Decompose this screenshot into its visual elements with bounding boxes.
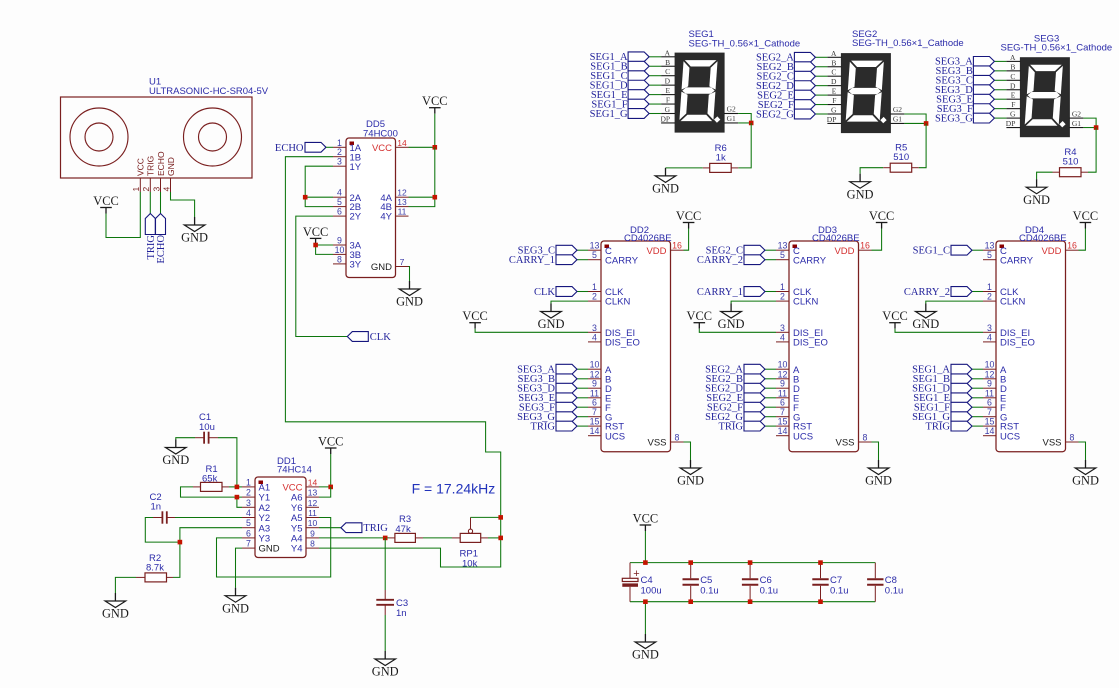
svg-text:GND: GND: [372, 665, 399, 679]
junction: [498, 536, 503, 541]
port SEG1_E: [591, 90, 649, 101]
port CARRY_1 at DD3: [697, 287, 765, 298]
DD3 pin 6 F: [776, 398, 799, 414]
wire DD4 VSS to ground: [1079, 442, 1086, 460]
DD3 pin 10 A: [776, 360, 800, 376]
svg-text:TRIG: TRIG: [363, 523, 388, 534]
wire: [649, 65, 661, 67]
wire U1 pin 2 to TRIG port: [149, 192, 151, 214]
svg-text:SEG-TH_0.56×1_Cathode: SEG-TH_0.56×1_Cathode: [852, 38, 964, 49]
svg-text:1: 1: [246, 477, 251, 487]
wire: [994, 108, 1006, 110]
port SEG3_G: [935, 113, 994, 124]
label RP1 10k: [460, 549, 478, 570]
DD3 pin 9 D: [776, 379, 800, 395]
svg-text:F: F: [832, 96, 836, 105]
wire C2 right to DD1 pin 4: [175, 517, 242, 519]
DD2 pin 12 B: [588, 369, 611, 385]
svg-text:8.7k: 8.7k: [146, 563, 164, 574]
DD2 pin 9 D: [588, 379, 612, 395]
ground at DD1: [222, 588, 249, 616]
DD4 pin 7 G: [983, 407, 1007, 423]
SEG3 pin C: [1006, 72, 1020, 81]
DD3 pin 1 CLK: [776, 282, 812, 298]
svg-text:DP: DP: [1006, 119, 1016, 128]
label C8 0.1u: [885, 575, 904, 596]
wire C3 to ground: [384, 615, 386, 651]
svg-text:10: 10: [778, 360, 788, 370]
DD1 pin 2 Y1: [242, 488, 270, 504]
wire VCC to DD3 VDD: [872, 229, 882, 251]
capacitor C2: [153, 511, 175, 523]
wire: [972, 291, 983, 293]
svg-text:VCC: VCC: [676, 209, 701, 223]
port TRIG at DD4: [926, 421, 973, 432]
label C6 0.1u: [760, 575, 779, 596]
wire: [577, 249, 588, 251]
junction: [643, 560, 648, 565]
svg-text:A: A: [665, 48, 671, 57]
svg-text:7: 7: [246, 539, 251, 549]
wire: [972, 249, 983, 251]
R3 leads: [389, 537, 423, 539]
svg-text:E: E: [666, 86, 671, 95]
svg-text:9: 9: [987, 379, 992, 389]
wire: [815, 56, 827, 58]
wire VCC to DD5 pin 9: [316, 243, 333, 246]
ground at C1: [162, 440, 189, 468]
DD5 pin 2 1B: [333, 147, 361, 163]
DD3 pin 7 G: [776, 407, 800, 423]
label DD4 CD4026BE: [1019, 225, 1067, 244]
wire: [815, 66, 827, 68]
wire DD5 1Y to 2A 2B: [305, 166, 333, 206]
svg-text:GND: GND: [102, 607, 129, 621]
svg-text:G: G: [831, 106, 837, 115]
DD2 pin 15 RST: [588, 417, 624, 433]
svg-text:DIS_EO: DIS_EO: [1000, 338, 1035, 349]
U1 pin 2 TRIG: [141, 156, 156, 192]
svg-text:15: 15: [985, 417, 995, 427]
label C3 1n: [396, 598, 408, 619]
wire R3 junction down to C3: [384, 538, 386, 590]
svg-text:65k: 65k: [202, 474, 218, 485]
port SEG1_D: [590, 80, 649, 91]
svg-text:VCC: VCC: [303, 225, 328, 239]
ground at DD4 CLKN: [912, 304, 939, 332]
U1 pin 3 ECHO: [151, 151, 166, 192]
svg-text:CARRY: CARRY: [1000, 255, 1034, 266]
svg-text:F: F: [666, 96, 670, 105]
svg-text:11: 11: [398, 207, 407, 217]
wire DD5 pin 7 to ground: [409, 267, 410, 282]
wire GND rail bottom: [630, 601, 875, 603]
svg-text:GND: GND: [847, 187, 874, 201]
resistor R3: [395, 533, 416, 542]
DD5 pin 12 4A: [380, 188, 408, 204]
wire: [577, 387, 588, 389]
svg-text:VDD: VDD: [646, 246, 666, 257]
SEG2 pin B: [827, 58, 841, 67]
wire VCC to DD2 VDD: [684, 229, 689, 251]
DD1 pin 12 Y6: [291, 498, 319, 514]
DD2 pin 14 UCS: [588, 426, 625, 442]
wire bottom rail to ground: [644, 602, 646, 634]
DD1 pin 11 A5: [291, 508, 319, 524]
svg-text:15: 15: [590, 417, 600, 427]
svg-text:5: 5: [246, 518, 251, 528]
label R3 47k: [395, 514, 411, 535]
svg-text:E: E: [832, 87, 837, 96]
svg-text:10k: 10k: [462, 558, 478, 569]
wire: [972, 368, 983, 370]
junction: [498, 515, 503, 520]
svg-text:VDD: VDD: [834, 246, 854, 257]
SEG2 pin E: [827, 87, 841, 96]
svg-text:E: E: [1011, 91, 1016, 100]
wire DD3 VSS to ground: [872, 442, 879, 460]
svg-text:1n: 1n: [396, 608, 407, 619]
svg-text:8: 8: [675, 433, 680, 443]
svg-text:10u: 10u: [199, 422, 215, 433]
capacitor C4: [622, 563, 639, 602]
DD4 pin 13 C: [983, 241, 1007, 257]
DD5 pin 11 4Y: [380, 207, 408, 223]
DD5 pin 10 3B: [333, 245, 361, 261]
resistor R5: [883, 163, 919, 172]
wire VCC to DD1 pin 14: [319, 454, 331, 487]
wire: [972, 378, 983, 380]
DD1 pin 8 Y4: [291, 539, 319, 555]
resistor R2: [145, 573, 167, 582]
wire DD1 pin 11 to pin 6: [217, 518, 331, 578]
svg-text:SEG2_G: SEG2_G: [756, 109, 794, 120]
svg-text:2: 2: [141, 187, 151, 192]
SEG3 pin E: [1006, 91, 1020, 100]
svg-text:GND: GND: [538, 317, 565, 331]
port CARRY_2 at DD4: [904, 287, 972, 298]
wire: [815, 104, 827, 106]
port SEG2_B at DD3: [706, 374, 765, 385]
port SEG1_C: [590, 71, 649, 82]
wire C1 right to DD1 pin 1: [218, 438, 237, 487]
wire R4 to ground: [1037, 172, 1053, 179]
wire VCC to DD5 pins 12 13: [409, 147, 435, 206]
wire: [815, 85, 827, 87]
svg-text:GND: GND: [259, 544, 280, 555]
DD3 pin 14 UCS: [776, 426, 813, 442]
SEG3 pin B: [1006, 62, 1020, 71]
DD4 pin 11 E: [983, 388, 1006, 404]
junction: [818, 560, 823, 565]
svg-text:CARRY_2: CARRY_2: [904, 287, 950, 298]
junction: [303, 195, 308, 200]
svg-text:GND: GND: [677, 474, 704, 488]
wire: [649, 84, 661, 86]
DD5 pin 14 VCC: [372, 138, 409, 154]
wire DD3 CLKN to ground: [731, 301, 776, 303]
svg-text:CD4026BE: CD4026BE: [812, 233, 860, 244]
svg-text:2: 2: [592, 292, 597, 302]
power VCC at DD2 VDD: [676, 209, 701, 229]
svg-text:UCS: UCS: [605, 431, 625, 442]
port SEG3_C at DD2: [518, 245, 577, 256]
resistor R4: [1053, 168, 1089, 177]
wire DD5 1B to oscillator net: [285, 157, 500, 567]
port SEG3_B at DD2: [518, 374, 577, 385]
ground at cap bank: [632, 634, 659, 662]
wire VCC to DD2 DIS_EI: [475, 329, 588, 333]
svg-text:0.1u: 0.1u: [760, 585, 779, 596]
svg-text:TRIG: TRIG: [146, 156, 156, 176]
resistor R1: [201, 482, 223, 491]
capacitor C1: [195, 432, 218, 444]
wire R3 to RP1: [423, 537, 452, 539]
port SEG1_G: [590, 109, 649, 120]
DD5 pin 13 4B: [380, 197, 408, 213]
label R2 8.7k: [146, 553, 164, 574]
port CLK at DD2: [534, 287, 577, 298]
svg-text:GND: GND: [632, 648, 659, 662]
port SEG1_A at DD4: [912, 364, 972, 375]
wire junction to R6: [738, 123, 751, 168]
svg-text:9: 9: [310, 528, 315, 538]
display SEG1 title: [689, 29, 801, 50]
wire DD2 VSS to ground: [684, 442, 691, 460]
DD4 pin 12 B: [983, 369, 1006, 385]
R2 leads: [136, 576, 173, 578]
display SEG1 body: [675, 53, 724, 132]
DD3 pin 15 RST: [776, 417, 812, 433]
svg-text:VCC: VCC: [372, 143, 392, 154]
SEG3 pin G1: [1069, 119, 1083, 128]
svg-text:CARRY_2: CARRY_2: [697, 255, 743, 266]
port SEG1_A: [590, 52, 649, 63]
port SEG3_G at DD2: [517, 412, 577, 423]
junction: [924, 121, 929, 126]
DD4 pin 14 UCS: [983, 426, 1020, 442]
port SEG2_E: [757, 90, 815, 101]
port CLK at DD5: [347, 332, 391, 343]
capacitor C5: [683, 563, 699, 602]
wire: [815, 113, 827, 115]
svg-text:GND: GND: [396, 295, 423, 309]
svg-text:4: 4: [161, 187, 171, 192]
wire: [994, 70, 1006, 72]
wire G2 to G1 net: [1083, 118, 1096, 127]
svg-text:5: 5: [780, 250, 785, 260]
DD3 pin 2 CLKN: [776, 292, 818, 308]
port SEG2_C: [757, 71, 816, 82]
wire branch to DD5 pin 4: [305, 196, 333, 198]
junction: [643, 599, 648, 604]
wire C1 left to ground: [176, 438, 195, 440]
wire R2 left to ground: [115, 577, 136, 593]
svg-text:1: 1: [987, 282, 992, 292]
svg-text:TRIG: TRIG: [531, 421, 556, 432]
svg-text:SEG-TH_0.56×1_Cathode: SEG-TH_0.56×1_Cathode: [1001, 43, 1113, 54]
port SEG3_F: [937, 104, 995, 115]
DD2 pin 11 E: [588, 388, 611, 404]
SEG2 pin F: [827, 96, 841, 105]
SEG1 pin G2: [724, 105, 738, 114]
svg-text:ECHO: ECHO: [275, 143, 304, 154]
wire VCC to DD5 pin 14: [409, 114, 435, 148]
svg-text:74HC14: 74HC14: [277, 465, 312, 476]
wire: [972, 425, 983, 427]
label C5 0.1u: [700, 575, 719, 596]
svg-text:SEG3_G: SEG3_G: [935, 113, 973, 124]
SEG1 pin C: [661, 67, 675, 76]
wire: [577, 406, 588, 408]
svg-text:G2: G2: [893, 105, 902, 114]
port SEG2_G at DD3: [705, 412, 765, 423]
wire VCC to DD1 pin 13: [319, 487, 331, 497]
junction: [688, 599, 693, 604]
wire: [649, 103, 661, 105]
label R5 510: [893, 143, 909, 164]
capacitor C6: [742, 563, 758, 602]
label R4 510: [1063, 147, 1079, 168]
DD3 pin 3 DIS_EI: [776, 323, 823, 339]
junction: [818, 599, 823, 604]
port SEG3_E: [936, 94, 994, 105]
DD2 pin 3 DIS_EI: [588, 323, 635, 339]
wire: [577, 425, 588, 427]
SEG3 pin G2: [1069, 109, 1083, 118]
DD2 pin 2 CLKN: [588, 292, 630, 308]
svg-text:CD4026BE: CD4026BE: [624, 233, 672, 244]
port TRIG at DD1: [341, 523, 388, 534]
svg-text:8: 8: [337, 254, 342, 264]
power VCC at DD3 DIS_EI: [687, 309, 712, 329]
DD3 pin 16 VDD: [834, 241, 871, 257]
port SEG3_D at DD2: [517, 383, 577, 394]
port CARRY_1 at DD2: [509, 255, 577, 266]
IC DD1 74HC14 body: [255, 477, 306, 558]
DD5 pin 8 3Y: [333, 254, 362, 270]
DD5 pin 1 1A: [333, 138, 362, 154]
label DD2 CD4026BE: [624, 225, 672, 244]
port SEG1_D at DD4: [912, 383, 972, 394]
capacitor C7: [812, 563, 828, 602]
svg-text:GND: GND: [222, 601, 249, 615]
svg-text:14: 14: [590, 426, 600, 436]
DD1 pin 4 Y2: [242, 508, 270, 524]
ground at R4: [1023, 179, 1050, 207]
wire R6 to ground: [666, 167, 703, 169]
port SEG3_B: [936, 66, 995, 77]
DD2 pin 10 A: [588, 360, 612, 376]
DD2 pin 13 C: [588, 241, 612, 257]
svg-text:6: 6: [246, 528, 251, 538]
label C7 0.1u: [830, 575, 849, 596]
port TRIG at DD3: [719, 421, 766, 432]
junction: [178, 540, 183, 545]
svg-text:74HC00: 74HC00: [363, 129, 398, 140]
svg-text:DIS_EO: DIS_EO: [605, 338, 640, 349]
port ECHO at DD5 pin 1: [275, 142, 326, 153]
power VCC at cap bank: [633, 512, 658, 532]
wire U1 VCC to pin 1: [106, 192, 140, 238]
svg-text:F: F: [1011, 100, 1015, 109]
port SEG3_A at DD2: [517, 364, 577, 375]
DD4 pin 9 D: [983, 379, 1007, 395]
svg-text:GND: GND: [652, 182, 679, 196]
ground at U1: [181, 217, 208, 245]
wire: [765, 259, 776, 261]
svg-text:B: B: [831, 58, 836, 67]
wire: [765, 368, 776, 370]
port SEG3_F at DD2: [519, 402, 577, 413]
wire VCC rail top: [630, 562, 875, 564]
DD3 pin 4 DIS_EO: [776, 332, 828, 348]
wire: [577, 368, 588, 370]
wire: [972, 406, 983, 408]
DD1 pin 9 A4: [291, 528, 319, 544]
svg-text:1n: 1n: [151, 502, 162, 513]
svg-text:VCC: VCC: [633, 512, 658, 526]
wire: [994, 60, 1006, 62]
wire G1 to junction: [738, 122, 751, 124]
wire: [577, 416, 588, 418]
svg-text:VCC: VCC: [462, 309, 487, 323]
svg-text:2Y: 2Y: [350, 212, 362, 223]
svg-text:G: G: [1010, 110, 1016, 119]
IC DD2 CD4026BE body: [601, 241, 671, 452]
svg-text:0.1u: 0.1u: [885, 585, 904, 596]
DD1 pin 1 A1: [242, 477, 270, 493]
wire: [765, 387, 776, 389]
svg-text:SEG1_G: SEG1_G: [590, 109, 628, 120]
DD2 pin 6 F: [588, 398, 611, 414]
port SEG1_E at DD4: [913, 393, 972, 404]
capacitor C3: [376, 590, 394, 615]
DD5 pin 6 2Y: [333, 207, 362, 223]
svg-text:13: 13: [590, 241, 600, 251]
svg-text:7: 7: [400, 257, 405, 267]
wire: [765, 291, 776, 293]
svg-text:CLK: CLK: [370, 332, 391, 343]
SEG1 pin F: [661, 96, 675, 105]
svg-text:DP: DP: [661, 114, 671, 123]
svg-text:A: A: [831, 49, 837, 58]
svg-text:SEG1_C: SEG1_C: [913, 246, 950, 257]
svg-text:2: 2: [337, 147, 342, 157]
DD4 pin 4 DIS_EO: [983, 332, 1035, 348]
DD2 pin 4 DIS_EO: [588, 332, 640, 348]
wire: [577, 291, 588, 293]
display SEG3 body: [1020, 58, 1069, 137]
power VCC at DD5 pin 14: [422, 94, 447, 114]
svg-text:13: 13: [778, 241, 788, 251]
port SEG2_F at DD3: [707, 402, 765, 413]
wire: [765, 406, 776, 408]
wire RP1 wiper to net: [471, 516, 501, 518]
svg-text:5: 5: [592, 250, 597, 260]
port TRIG at U1: [145, 214, 157, 260]
svg-text:GND: GND: [162, 453, 189, 467]
wire net Y1 to DD1 pin 3: [237, 497, 242, 507]
svg-text:UCS: UCS: [1000, 431, 1020, 442]
DD3 pin 11 E: [776, 388, 799, 404]
svg-text:1: 1: [780, 282, 785, 292]
DD3 pin 5 CARRY: [776, 250, 827, 266]
SEG2 pin D: [827, 77, 841, 86]
svg-text:VSS: VSS: [647, 438, 666, 449]
svg-text:6: 6: [337, 207, 342, 217]
ground at DD3 CLKN: [718, 304, 745, 332]
